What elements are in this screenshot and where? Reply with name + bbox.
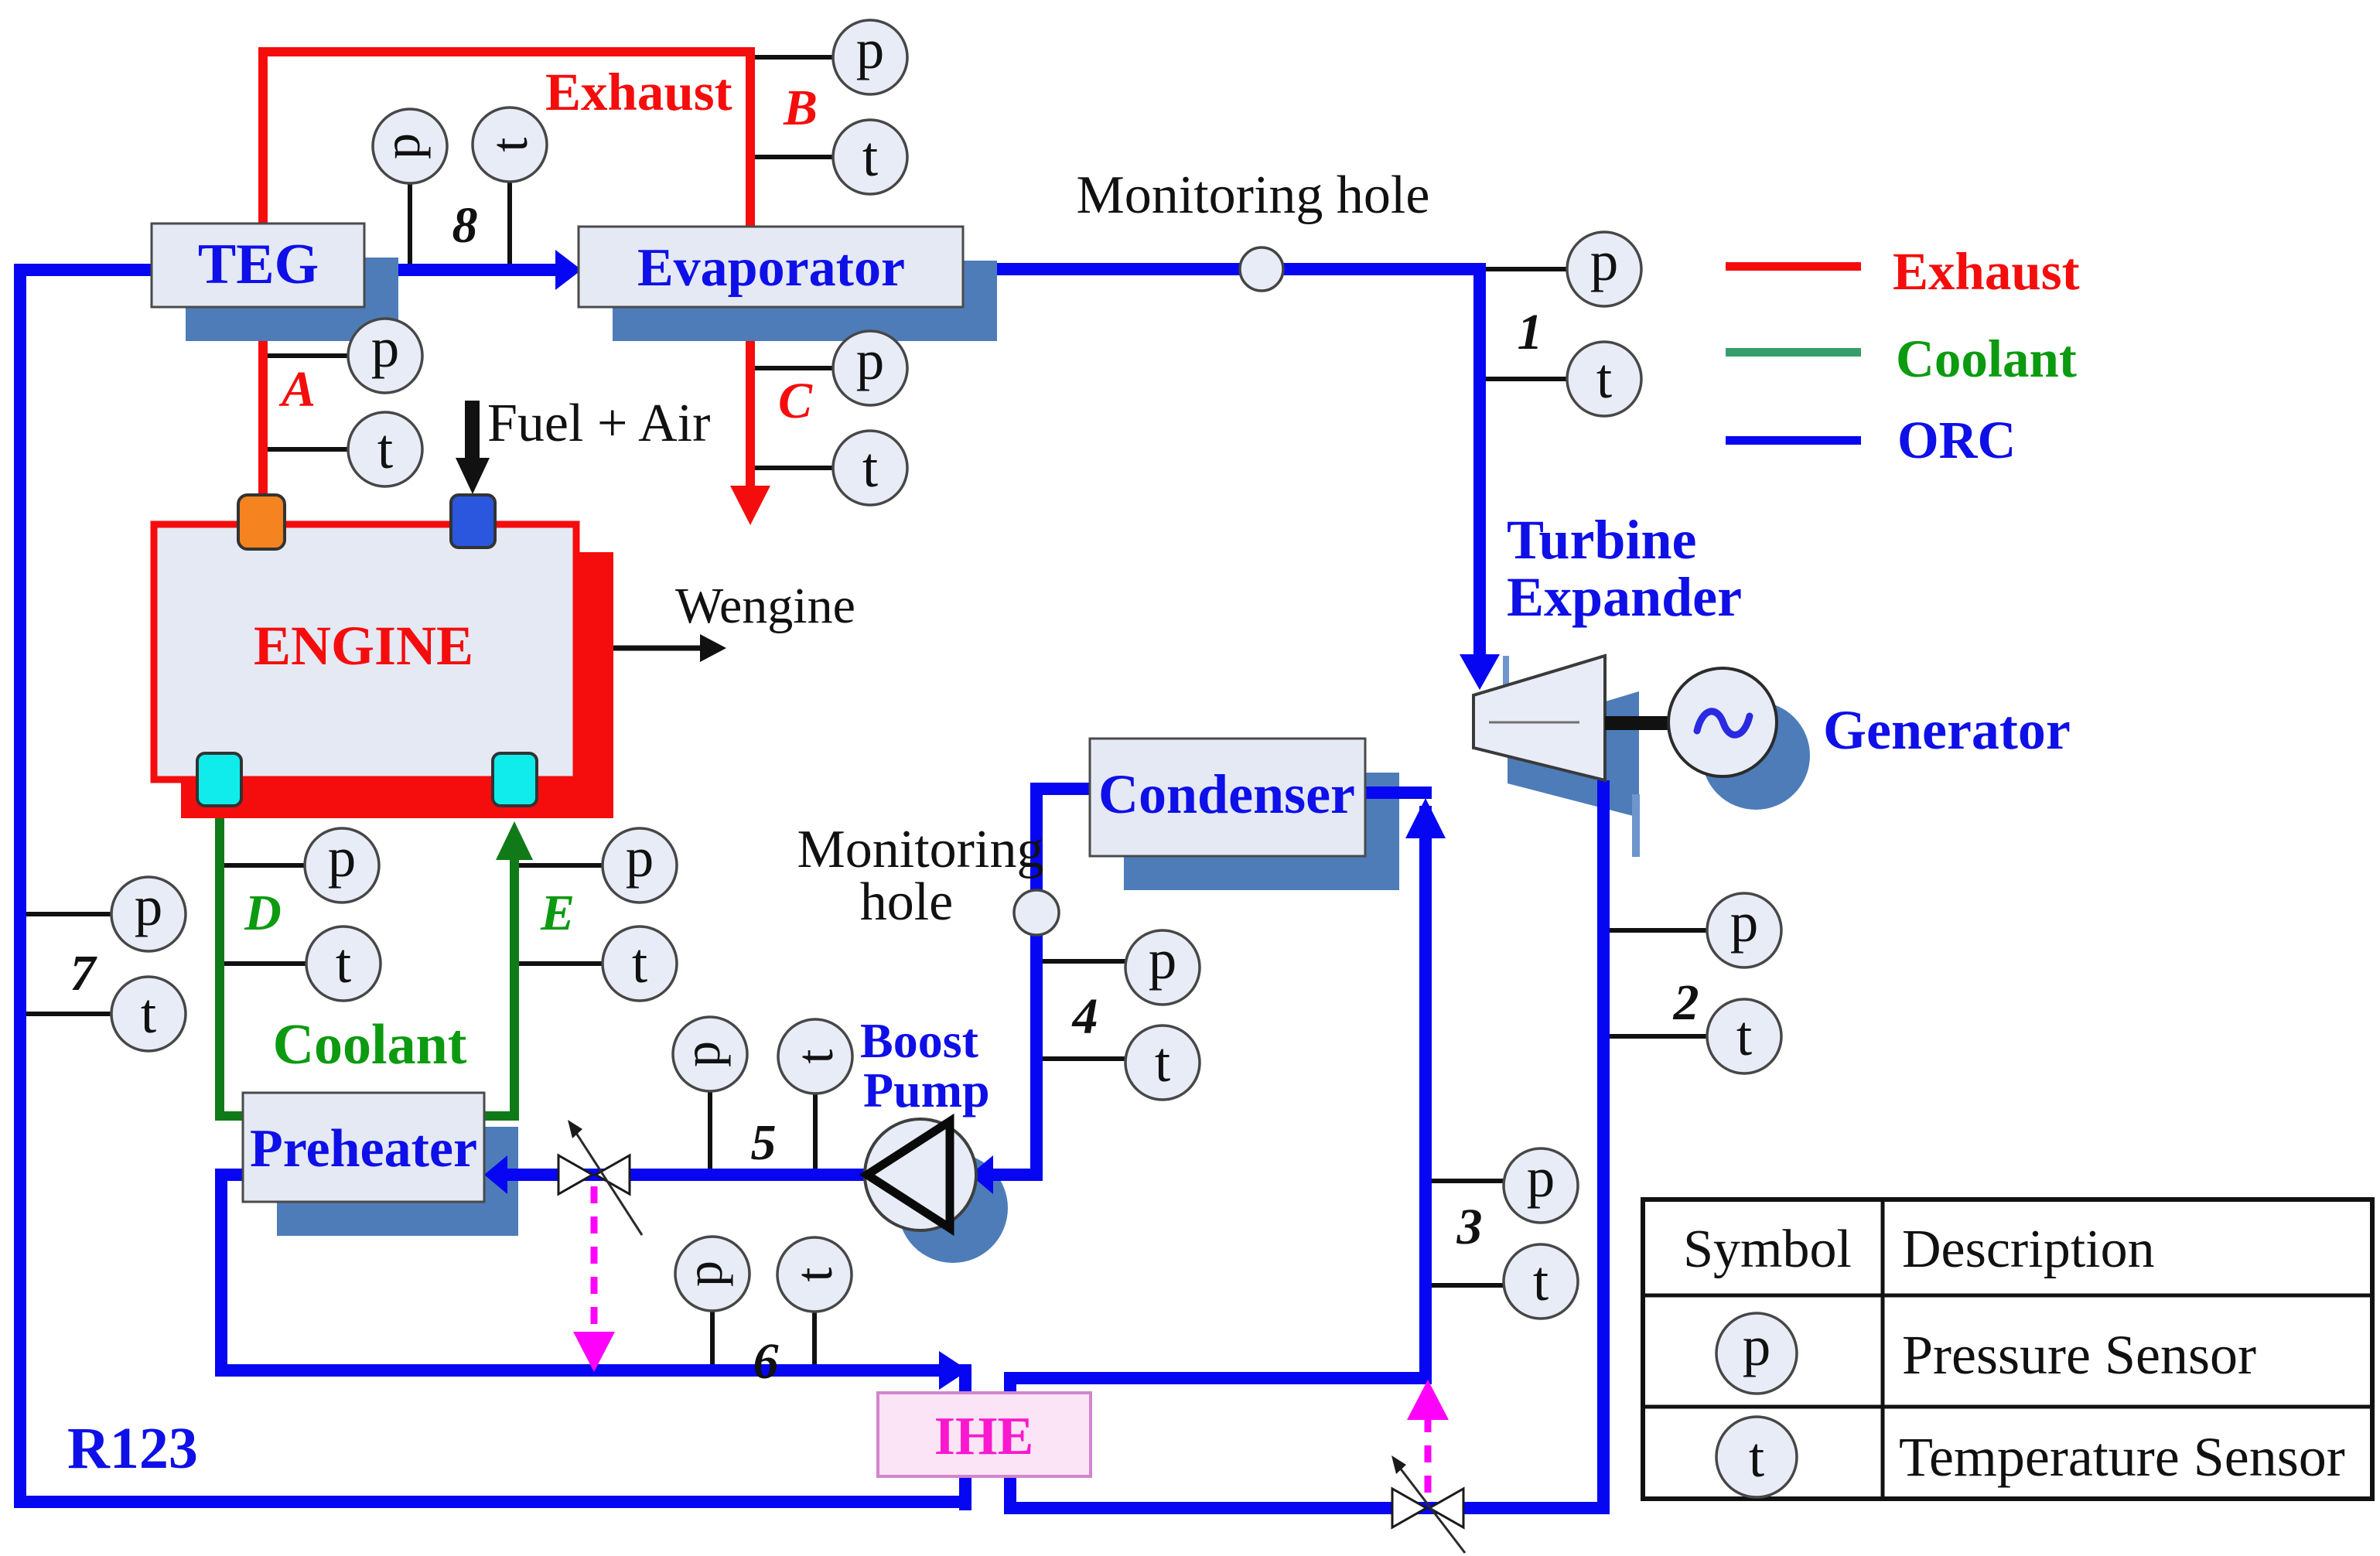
wire: ORC horizontal IHE to condenser riser xyxy=(1004,1372,1432,1384)
arrowhead: exhaust C outlet xyxy=(730,486,770,525)
arrowhead: into pump xyxy=(970,1155,993,1194)
svg-text:Wengine: Wengine xyxy=(675,578,855,634)
arrowhead: line 6 into IHE xyxy=(939,1351,968,1390)
wire: ORC bottom horizontal right segment xyxy=(1004,1502,1610,1514)
sensor A p xyxy=(268,316,422,393)
turbine shadow tail below xyxy=(1632,794,1640,857)
sensor 2 p xyxy=(1610,891,1781,967)
wire: exhaust C vertical below evaporator xyxy=(746,307,755,487)
wire: ORC line 2 vertical from turbine xyxy=(1597,780,1610,1514)
wire: exhaust TEG up to top xyxy=(258,47,268,225)
arrowhead: up into condenser xyxy=(1405,798,1446,838)
engine cyan connector right xyxy=(493,753,537,806)
shadow of boost pump xyxy=(898,1153,1008,1263)
svg-text:Description: Description xyxy=(1902,1220,2155,1279)
svg-text:E: E xyxy=(540,885,575,941)
arrowhead: coolant E into engine xyxy=(496,821,533,860)
sensor 8 t xyxy=(473,107,547,264)
svg-text:p: p xyxy=(135,875,163,937)
svg-text:t: t xyxy=(785,1049,844,1063)
svg-text:p: p xyxy=(674,1261,733,1287)
magenta dashed control arrow from bottom valve up xyxy=(1407,1380,1449,1493)
legend ORC line xyxy=(1726,436,1861,445)
wire: ORC preheater left exit horizontal xyxy=(215,1169,249,1181)
wire: coolant E vertical up to engine xyxy=(510,854,519,1121)
Condenser box xyxy=(1090,739,1365,856)
svg-text:Evaporator: Evaporator xyxy=(637,238,905,298)
sensor 1 t xyxy=(1486,342,1641,416)
wire: exhaust A (engine to TEG) xyxy=(258,307,268,497)
sensor 1 p xyxy=(1486,230,1641,306)
boost pump triangle xyxy=(867,1121,950,1228)
svg-text:8: 8 xyxy=(452,197,478,254)
svg-text:t: t xyxy=(377,418,393,480)
wire: ORC left horizontal into TEG xyxy=(14,264,152,276)
wire: ORC line 1 vertical to turbine xyxy=(1473,263,1486,656)
Preheater box xyxy=(243,1093,484,1202)
svg-text:p: p xyxy=(856,329,885,391)
Wengine arrow xyxy=(613,634,726,662)
svg-text:Monitoring hole: Monitoring hole xyxy=(1077,165,1430,225)
svg-text:Temperature Sensor: Temperature Sensor xyxy=(1899,1426,2345,1488)
svg-text:ORC: ORC xyxy=(1897,411,2016,469)
sensor E p xyxy=(519,826,677,903)
svg-text:Exhaust: Exhaust xyxy=(1893,242,2080,301)
Evaporator box xyxy=(579,227,963,307)
valve at bottom right xyxy=(1391,1455,1465,1553)
wire: coolant D elbow into preheater xyxy=(215,1111,248,1121)
svg-text:t: t xyxy=(336,932,351,995)
ENGINE right red bar xyxy=(579,552,613,818)
shadow of Preheater box xyxy=(277,1127,518,1236)
sensor 3 t xyxy=(1432,1244,1578,1319)
turbine shadow tail above xyxy=(1503,656,1509,691)
wire: ORC IHE left pipe xyxy=(959,1364,971,1510)
svg-text:C: C xyxy=(778,373,813,429)
svg-text:t: t xyxy=(784,1267,843,1281)
turbine expander body xyxy=(1473,656,1605,780)
sensor 4 t xyxy=(1043,1025,1200,1100)
turbine shaft centerline xyxy=(1489,722,1579,724)
generator circle xyxy=(1668,668,1777,776)
svg-text:IHE: IHE xyxy=(934,1407,1033,1466)
svg-text:t: t xyxy=(1736,1005,1752,1067)
sensor A t xyxy=(268,412,422,486)
svg-text:p: p xyxy=(371,316,400,379)
legend coolant line xyxy=(1726,348,1861,357)
sensor 2 t xyxy=(1610,999,1781,1073)
wire: ORC left vertical (R123 side) xyxy=(14,264,26,1508)
svg-text:2: 2 xyxy=(1673,974,1699,1031)
shadow of turbine expander xyxy=(1508,691,1639,817)
svg-text:Boost: Boost xyxy=(860,1013,979,1068)
svg-text:p: p xyxy=(328,826,357,889)
svg-text:D: D xyxy=(244,885,282,941)
svg-text:4: 4 xyxy=(1071,988,1098,1045)
sensor B t xyxy=(755,120,907,194)
svg-text:Coolant: Coolant xyxy=(1896,329,2077,388)
wire: ORC into pump from right xyxy=(976,1169,1043,1181)
svg-text:1: 1 xyxy=(1518,304,1543,360)
engine orange connector xyxy=(238,495,285,549)
svg-text:hole: hole xyxy=(860,872,954,932)
sensor C t xyxy=(755,431,907,505)
svg-text:Coolant: Coolant xyxy=(273,1013,467,1077)
svg-text:Preheater: Preheater xyxy=(250,1119,477,1179)
engine cyan connector left xyxy=(197,753,241,806)
svg-text:Turbine: Turbine xyxy=(1507,509,1696,571)
arrowhead: into evaporator xyxy=(555,250,582,290)
svg-text:Pump: Pump xyxy=(863,1063,990,1118)
svg-text:B: B xyxy=(783,80,818,136)
svg-text:3: 3 xyxy=(1456,1199,1483,1255)
sensor 4 p xyxy=(1043,928,1200,1005)
svg-text:t: t xyxy=(632,932,647,995)
svg-text:Condenser: Condenser xyxy=(1098,763,1355,825)
sensor D p xyxy=(224,826,379,903)
shaft to generator xyxy=(1605,716,1668,730)
shadow of TEG box xyxy=(186,258,398,341)
svg-text:Expander: Expander xyxy=(1507,566,1742,628)
svg-text:R123: R123 xyxy=(67,1416,198,1481)
wire: ORC condenser outlet vertical (4) xyxy=(1030,783,1043,1181)
svg-text:Generator: Generator xyxy=(1823,699,2071,761)
wire: ORC preheater down vertical xyxy=(215,1169,227,1377)
svg-text:t: t xyxy=(862,125,878,188)
magenta dashed control arrow from preheater valve down xyxy=(573,1186,615,1372)
wire: exhaust B vertical into evaporator xyxy=(746,47,755,228)
wire: ORC IHE right pipe xyxy=(1004,1372,1016,1514)
svg-text:Exhaust: Exhaust xyxy=(545,63,732,121)
svg-text:Monitoring: Monitoring xyxy=(797,820,1044,879)
valve near preheater xyxy=(558,1120,642,1235)
svg-text:A: A xyxy=(278,361,316,418)
engine blue connector xyxy=(451,495,495,548)
svg-text:t: t xyxy=(1596,347,1612,410)
svg-text:7: 7 xyxy=(70,945,98,1002)
svg-text:t: t xyxy=(141,982,156,1045)
svg-text:5: 5 xyxy=(751,1114,777,1171)
svg-text:p: p xyxy=(1149,928,1177,991)
svg-text:ENGINE: ENGINE xyxy=(254,615,473,677)
wire: ORC bottom horizontal left segment xyxy=(14,1496,971,1508)
sensor E t xyxy=(519,926,677,1001)
svg-text:p: p xyxy=(372,133,431,159)
svg-text:Symbol: Symbol xyxy=(1683,1220,1852,1279)
monitoring hole circle on evaporator outlet xyxy=(1240,247,1283,291)
svg-text:p: p xyxy=(1743,1315,1771,1377)
svg-text:p: p xyxy=(626,826,654,889)
svg-text:p: p xyxy=(1730,891,1759,954)
sensor 6 p xyxy=(674,1237,750,1364)
sensor 8 p xyxy=(372,109,447,264)
TEG box xyxy=(152,224,364,307)
arrowhead: into preheater xyxy=(484,1155,507,1194)
svg-text:t: t xyxy=(1155,1031,1170,1094)
monitoring hole circle on condenser outlet xyxy=(1014,890,1059,935)
wire: coolant D (engine down) xyxy=(215,818,224,1121)
shadow of Condenser box xyxy=(1124,773,1399,890)
sensor B p xyxy=(755,18,907,94)
IHE box xyxy=(878,1393,1091,1476)
sensor 5 p xyxy=(672,1017,747,1169)
sensor C p xyxy=(755,329,907,405)
wire: ORC line 6 horizontal to IHE xyxy=(215,1364,941,1377)
wire: ORC pump to preheater (5) xyxy=(495,1169,868,1181)
svg-text:Fuel + Air: Fuel + Air xyxy=(487,394,710,453)
svg-text:t: t xyxy=(862,436,878,499)
svg-text:p: p xyxy=(856,18,885,80)
shadow of Evaporator box xyxy=(613,261,997,341)
svg-text:p: p xyxy=(1590,230,1619,292)
ENGINE bottom red bar xyxy=(181,783,613,818)
table frame xyxy=(1643,1199,2372,1499)
legend exhaust line xyxy=(1726,262,1861,271)
svg-text:Pressure Sensor: Pressure Sensor xyxy=(1902,1324,2256,1386)
wire: exhaust top horizontal xyxy=(258,47,755,56)
svg-text:t: t xyxy=(1533,1250,1549,1312)
sensor 6 t xyxy=(777,1237,852,1364)
wire: ORC condenser left horizontal xyxy=(1036,783,1090,795)
wire: ORC evaporator to corner (1) xyxy=(963,263,1486,275)
svg-text:p: p xyxy=(1527,1146,1555,1209)
ENGINE box xyxy=(154,524,576,780)
sensor D t xyxy=(224,926,381,1001)
svg-text:6: 6 xyxy=(753,1333,779,1390)
generator ~ symbol xyxy=(1697,711,1750,735)
sensor 5 t xyxy=(778,1019,852,1169)
wire: ORC TEG to evaporator (8) xyxy=(364,264,557,276)
sensor 7 p xyxy=(26,875,186,951)
arrowhead: into turbine xyxy=(1460,654,1500,690)
sensor 7 t xyxy=(26,977,186,1051)
table t symbol xyxy=(1716,1417,1797,1497)
svg-text:t: t xyxy=(480,137,538,152)
shadow of generator xyxy=(1702,701,1810,810)
svg-text:t: t xyxy=(1749,1426,1764,1489)
wire: ORC short horizontal at condenser right xyxy=(1364,787,1432,799)
svg-text:TEG: TEG xyxy=(198,233,319,296)
boost pump circle xyxy=(865,1119,976,1230)
table p symbol xyxy=(1716,1313,1797,1394)
Fuel + Air arrow xyxy=(456,401,490,494)
sensor 3 p xyxy=(1432,1146,1578,1223)
wire: ORC condenser riser vertical xyxy=(1419,806,1432,1384)
svg-text:p: p xyxy=(672,1041,731,1067)
wire: coolant E elbow from preheater xyxy=(480,1111,519,1121)
